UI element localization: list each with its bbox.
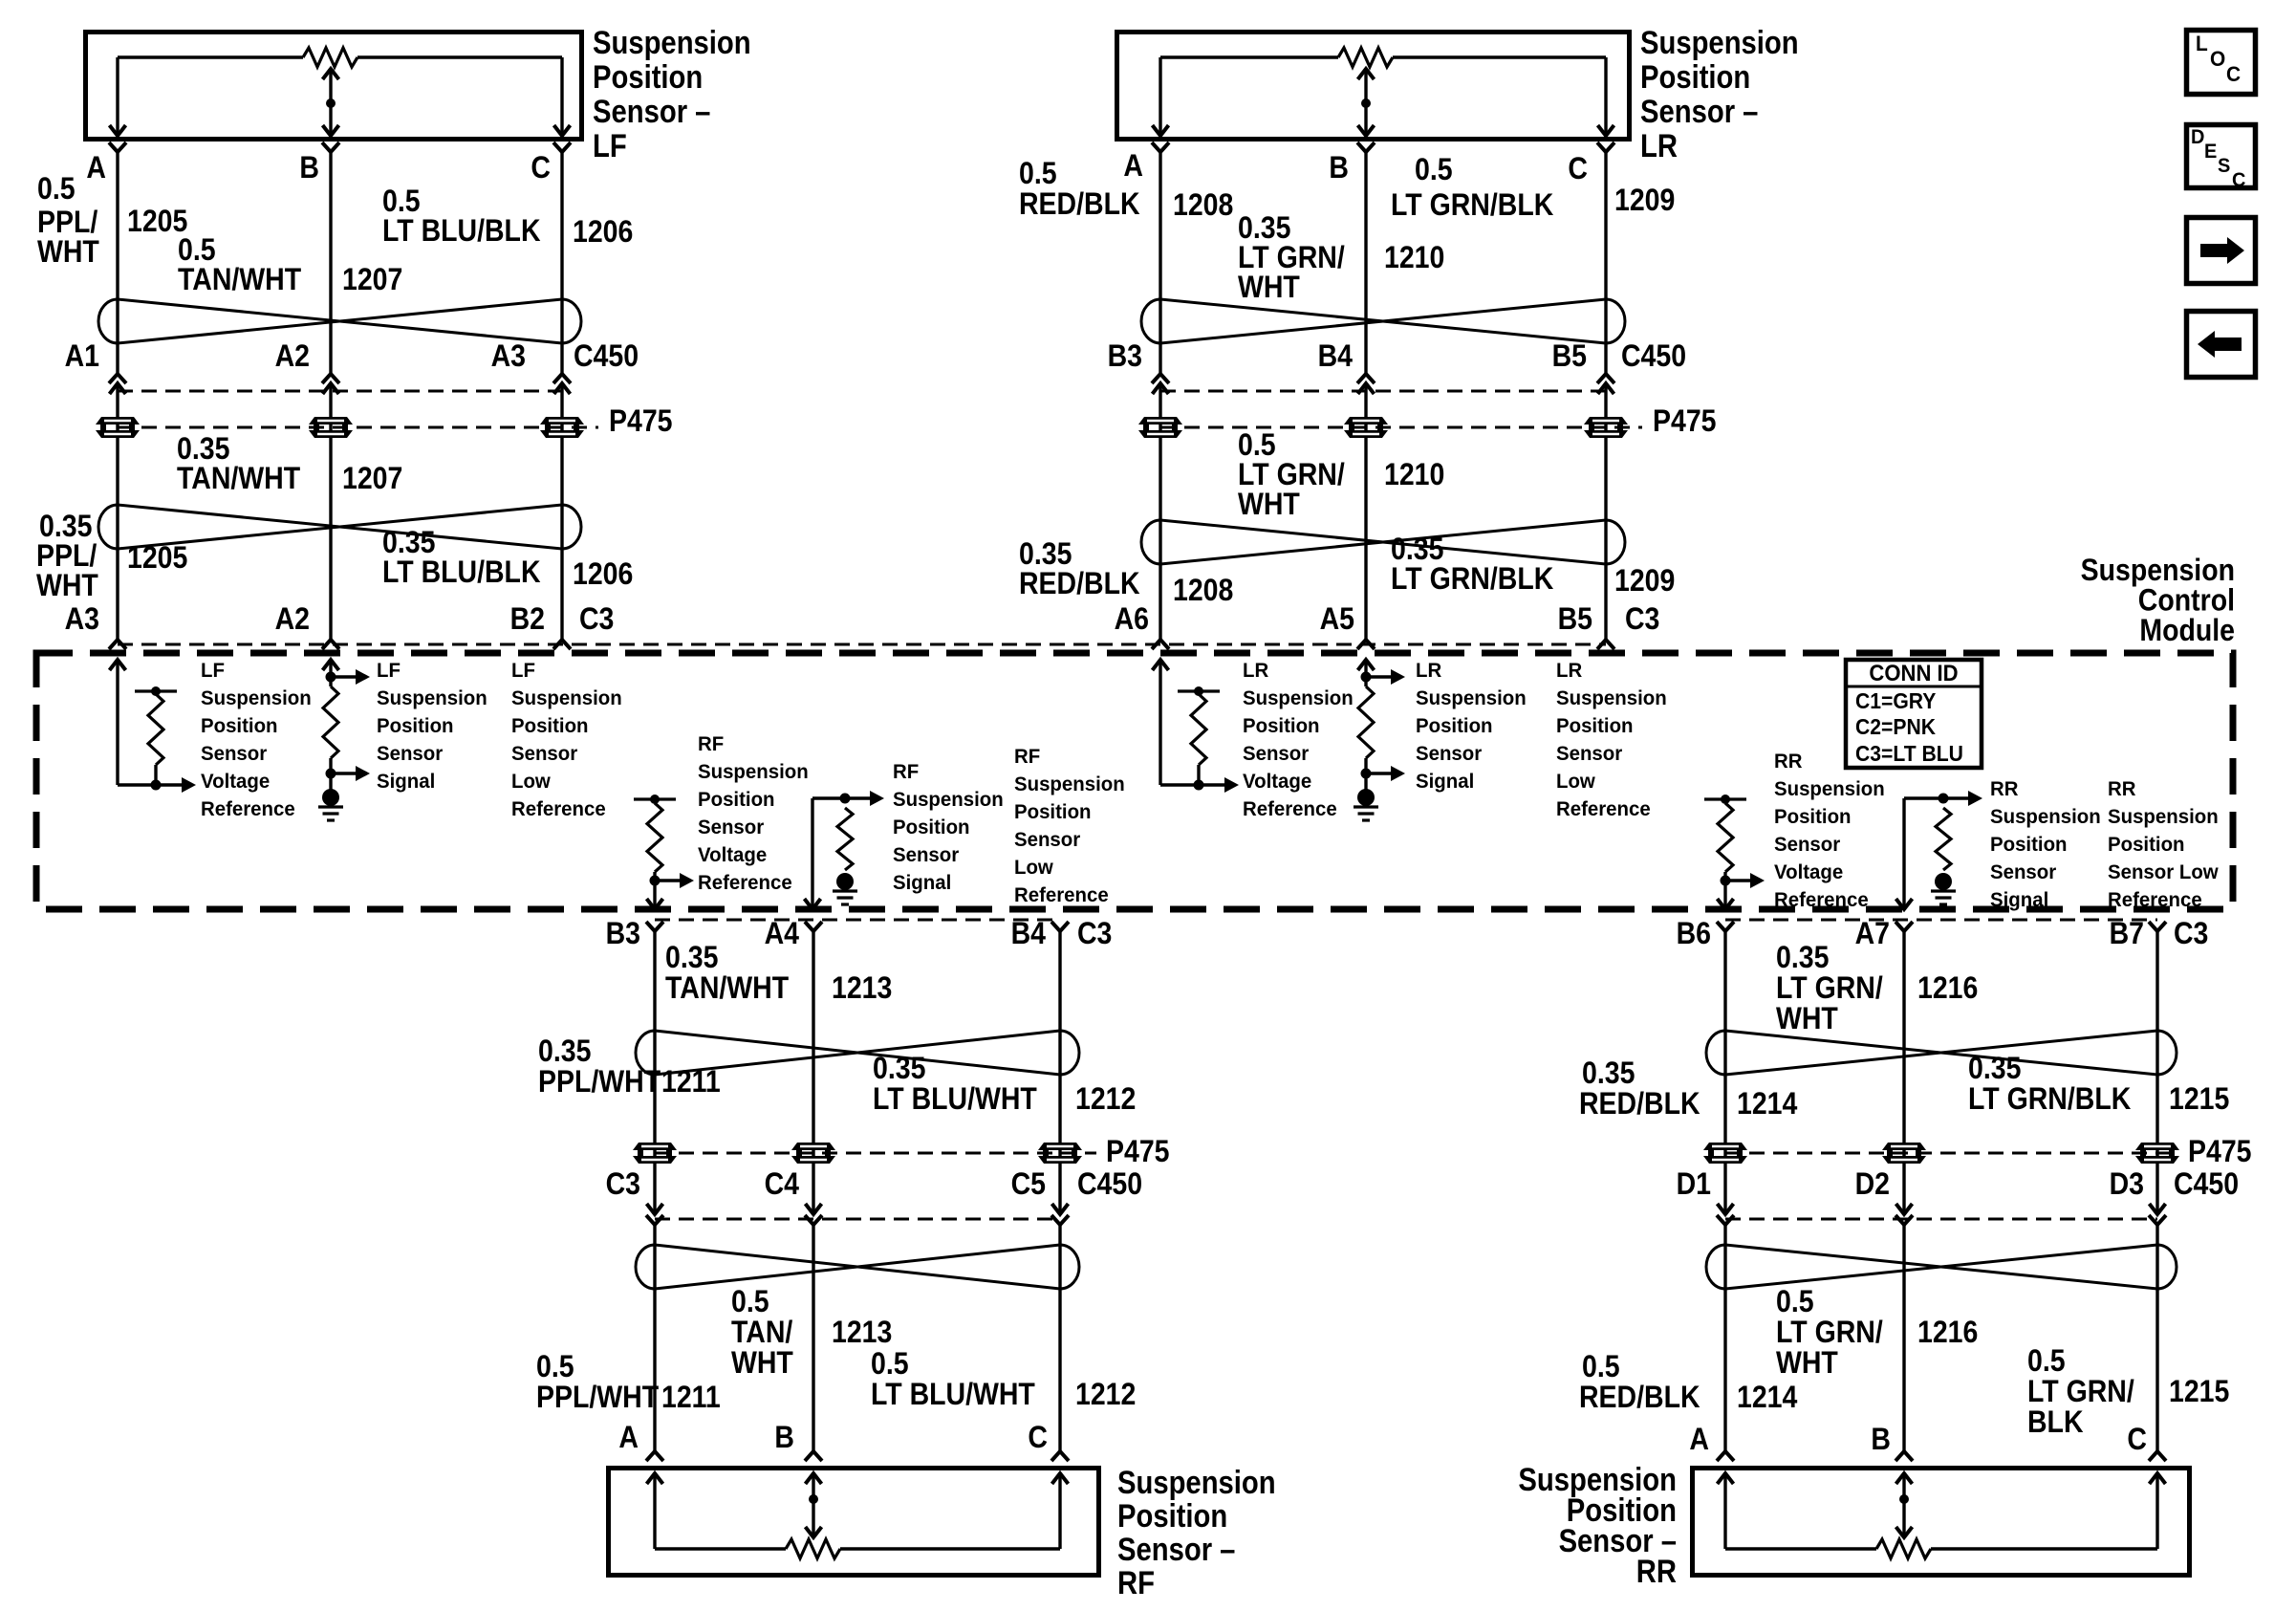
LF wire B (TAN/WHT 1207) module pin arrow — [323, 660, 339, 670]
sensor RF pin A internal lead — [653, 1473, 656, 1549]
sensor LF internal resistor element — [118, 55, 303, 58]
sensor LF pin C internal lead — [560, 57, 563, 136]
LR wire A (RED/BLK 1208) wire sensor to C450 — [1159, 152, 1161, 374]
svg-text:Reference: Reference — [201, 798, 295, 821]
svg-text:WHT: WHT — [1776, 1003, 1838, 1036]
RF wire B (TAN/WHT 1213) wire C450 to sensor — [812, 1225, 814, 1451]
svg-text:Voltage: Voltage — [698, 844, 767, 867]
svg-text:LT GRN/BLK: LT GRN/BLK — [1391, 189, 1553, 223]
svg-text:1212: 1212 — [1075, 1379, 1136, 1412]
LF signal upper tap — [326, 672, 336, 683]
svg-text:Reference: Reference — [698, 872, 792, 895]
svg-text:Position: Position — [1416, 715, 1493, 738]
svg-text:P475: P475 — [1653, 405, 1717, 439]
svg-text:LT BLU/BLK: LT BLU/BLK — [382, 215, 541, 249]
svg-text:1214: 1214 — [1737, 1088, 1797, 1121]
svg-text:LF: LF — [511, 660, 535, 683]
LR wire C (LT GRN/BLK 1209) harness fork below sensor — [1597, 142, 1614, 152]
svg-text:0.35: 0.35 — [538, 1035, 591, 1069]
svg-text:RF: RF — [698, 733, 724, 756]
svg-text:E: E — [2204, 141, 2217, 163]
svg-text:B7: B7 — [2110, 918, 2144, 951]
svg-text:1216: 1216 — [1917, 972, 1978, 1006]
svg-text:BLK: BLK — [2027, 1406, 2084, 1440]
RF wire C (LT BLU/WHT 1212) wire C450 to sensor — [1058, 1225, 1061, 1451]
svg-text:Position: Position — [1640, 58, 1750, 96]
svg-text:TAN/: TAN/ — [731, 1317, 793, 1350]
svg-text:A: A — [1689, 1424, 1709, 1457]
svg-text:C3: C3 — [1077, 918, 1112, 951]
svg-text:P475: P475 — [2188, 1136, 2252, 1169]
svg-text:Position: Position — [1556, 715, 1634, 738]
svg-text:Position: Position — [593, 58, 703, 96]
svg-text:Position: Position — [201, 715, 278, 738]
RR wire C (LT GRN/BLK 1215) connector C450 halves — [2150, 1204, 2166, 1214]
LF voltage reference wire — [116, 660, 119, 785]
LR wire B (LT GRN/WHT 1210) wire C450 to module — [1364, 383, 1367, 640]
svg-text:A1: A1 — [65, 340, 99, 374]
svg-text:Suspension: Suspension — [1774, 778, 1885, 801]
RF wire B (TAN/WHT 1213) grommet P475 — [791, 1143, 835, 1150]
LF wire B (TAN/WHT 1207) grommet P475 — [309, 417, 353, 425]
svg-text:0.35: 0.35 — [1019, 538, 1072, 572]
svg-text:Sensor –: Sensor – — [1640, 93, 1758, 130]
svg-text:0.5: 0.5 — [1776, 1286, 1814, 1319]
RR wire C (LT GRN/BLK 1215) wire C450 to sensor — [2155, 1225, 2158, 1451]
svg-text:Signal: Signal — [377, 771, 435, 794]
svg-text:P475: P475 — [1106, 1136, 1170, 1169]
RR signal tap — [1939, 794, 1949, 804]
svg-text:C450: C450 — [1077, 1168, 1142, 1202]
RR wire B (LT GRN/WHT 1216) grommet P475 — [1882, 1143, 1926, 1150]
LF wire A (PPL/WHT 1205) wire C450 to module — [116, 383, 119, 640]
svg-text:B4: B4 — [1011, 918, 1047, 951]
RF wire C (LT BLU/WHT 1212) fork below module — [1051, 922, 1069, 931]
svg-text:1214: 1214 — [1737, 1382, 1797, 1415]
svg-text:TAN/WHT: TAN/WHT — [178, 264, 302, 297]
svg-text:B: B — [299, 152, 319, 185]
LR wire B (LT GRN/WHT 1210) wire sensor to C450 — [1364, 152, 1367, 374]
svg-text:Position: Position — [893, 816, 970, 839]
LF wire C (LT BLU/BLK 1206) fork at module connector — [553, 640, 571, 649]
svg-text:0.5: 0.5 — [1415, 154, 1453, 187]
svg-text:B3: B3 — [1108, 340, 1142, 374]
svg-text:WHT: WHT — [731, 1347, 793, 1381]
svg-text:C: C — [2232, 169, 2246, 192]
LR wire C (LT GRN/BLK 1209) wire C450 to module — [1604, 383, 1607, 640]
LR wire A (RED/BLK 1208) grommet P475 — [1138, 417, 1182, 425]
svg-text:P475: P475 — [609, 405, 673, 439]
LR signal lower tap — [1361, 769, 1372, 779]
svg-text:A3: A3 — [65, 603, 99, 637]
svg-text:0.35: 0.35 — [177, 433, 229, 467]
svg-text:Position: Position — [1014, 801, 1092, 824]
svg-text:C: C — [2226, 63, 2241, 87]
svg-text:B: B — [774, 1422, 794, 1455]
svg-text:Suspension: Suspension — [2081, 555, 2235, 588]
RF signal exit arrow — [805, 899, 821, 909]
svg-text:LF: LF — [593, 127, 627, 164]
CONN ID table — [1846, 660, 1982, 768]
twisted pair RR lower — [1706, 1245, 1725, 1289]
svg-text:Suspension: Suspension — [2108, 806, 2219, 829]
RR voltage reference exit arrow — [1718, 899, 1734, 909]
LF wire C (LT BLU/BLK 1206) connector C450 halves — [553, 374, 571, 383]
svg-text:LT GRN/BLK: LT GRN/BLK — [1968, 1083, 2131, 1117]
svg-text:Position: Position — [1243, 715, 1320, 738]
svg-text:C3: C3 — [579, 603, 614, 637]
svg-text:Control: Control — [2138, 584, 2235, 618]
sensor LF pin A internal lead — [116, 57, 119, 136]
RR voltage reference resistor — [1704, 797, 1746, 800]
svg-text:C1=GRY: C1=GRY — [1855, 688, 1937, 713]
sensor LR pin C internal lead — [1604, 57, 1607, 136]
svg-text:0.5: 0.5 — [731, 1286, 769, 1319]
RR wire B (LT GRN/WHT 1216) wire C450 to sensor — [1902, 1225, 1905, 1451]
svg-text:1213: 1213 — [832, 972, 892, 1006]
suspension position sensor LR box — [1117, 33, 1630, 140]
RF signal resistor — [837, 808, 853, 870]
LR wire B (LT GRN/WHT 1210) connector C450 halves — [1357, 374, 1375, 383]
svg-text:Position: Position — [511, 715, 589, 738]
svg-text:Voltage: Voltage — [201, 771, 270, 794]
RF wire C (LT BLU/WHT 1212) fork above sensor — [1051, 1451, 1069, 1461]
svg-text:Suspension: Suspension — [1117, 1464, 1276, 1501]
sensor RR pin C internal lead — [2155, 1473, 2158, 1549]
svg-text:WHT: WHT — [1776, 1347, 1838, 1381]
RR wire B (LT GRN/WHT 1216) fork below module — [1895, 922, 1913, 931]
icon box forward arrow — [2187, 218, 2256, 284]
svg-text:C5: C5 — [1011, 1168, 1046, 1202]
suspension position sensor LF box — [86, 33, 582, 140]
svg-text:Sensor: Sensor — [1774, 834, 1840, 857]
svg-text:Suspension: Suspension — [1556, 687, 1667, 710]
svg-text:1206: 1206 — [573, 216, 633, 250]
svg-text:PPL/: PPL/ — [36, 540, 97, 574]
svg-text:A5: A5 — [1320, 603, 1354, 637]
svg-text:Suspension: Suspension — [1990, 806, 2101, 829]
svg-text:B: B — [1329, 152, 1349, 185]
svg-text:Position: Position — [1117, 1497, 1227, 1535]
RF wire A (PPL/WHT 1211) fork above sensor — [646, 1451, 663, 1461]
LR wire C (LT GRN/BLK 1209) fork at module connector — [1597, 640, 1614, 649]
svg-text:1215: 1215 — [2169, 1083, 2229, 1117]
svg-text:D3: D3 — [2110, 1168, 2144, 1202]
svg-text:1208: 1208 — [1173, 575, 1233, 608]
svg-text:0.35: 0.35 — [1391, 533, 1443, 567]
svg-text:Sensor: Sensor — [893, 844, 959, 867]
svg-text:Sensor: Sensor — [377, 743, 443, 766]
svg-text:A3: A3 — [491, 340, 526, 374]
svg-text:RR: RR — [1774, 751, 1802, 773]
LR wire B (LT GRN/WHT 1210) module pin arrow — [1358, 660, 1375, 670]
LR voltage reference wire — [1159, 660, 1161, 785]
LR wire B (LT GRN/WHT 1210) harness fork below sensor — [1357, 142, 1375, 152]
svg-text:A7: A7 — [1855, 918, 1890, 951]
svg-text:C4: C4 — [765, 1168, 800, 1202]
svg-text:0.35: 0.35 — [873, 1053, 925, 1086]
svg-text:C: C — [2127, 1424, 2147, 1457]
svg-text:Sensor: Sensor — [1243, 743, 1309, 766]
LF wire C (LT BLU/BLK 1206) harness fork below sensor — [553, 142, 571, 152]
LF voltage reference arrow — [182, 777, 196, 793]
RR wire C (LT GRN/BLK 1215) wire module to P475 — [2155, 931, 2158, 1214]
svg-text:RF: RF — [1117, 1564, 1155, 1601]
svg-text:Reference: Reference — [1774, 889, 1869, 912]
svg-text:A6: A6 — [1115, 603, 1149, 637]
sensor RF internal resistor element — [655, 1547, 786, 1550]
svg-text:Suspension: Suspension — [698, 761, 809, 784]
twisted pair LR upper — [1141, 299, 1160, 343]
twisted pair LF lower — [98, 505, 118, 549]
svg-text:Signal: Signal — [893, 872, 951, 895]
LF signal resistor — [323, 686, 338, 758]
RR signal exit arrow — [1896, 899, 1913, 909]
RR wire C (LT GRN/BLK 1215) fork below module — [2149, 922, 2166, 931]
sensor RR internal resistor element — [1725, 1547, 1876, 1550]
icon box back arrow — [2187, 312, 2256, 378]
LR wire C (LT GRN/BLK 1209) wire sensor to C450 — [1604, 152, 1607, 374]
LF wire A (PPL/WHT 1205) harness fork below sensor — [109, 142, 126, 152]
RF wire C (LT BLU/WHT 1212) wire module to P475 — [1058, 931, 1061, 1214]
LF wire C (LT BLU/BLK 1206) grommet P475 — [540, 417, 584, 425]
twisted pair LF upper — [98, 299, 118, 343]
svg-text:Voltage: Voltage — [1243, 771, 1311, 794]
svg-text:RF: RF — [893, 761, 919, 784]
grommet line P475 top LR — [1160, 426, 1642, 429]
LR signal upper tap — [1361, 672, 1372, 683]
svg-text:1211: 1211 — [661, 1382, 721, 1415]
svg-text:1209: 1209 — [1614, 185, 1675, 218]
RF wire A (PPL/WHT 1211) connector C450 halves — [647, 1204, 663, 1214]
svg-text:L: L — [2196, 33, 2208, 56]
RF wire B (TAN/WHT 1213) fork below module — [805, 922, 822, 931]
svg-text:A2: A2 — [275, 603, 310, 637]
svg-text:Voltage: Voltage — [1774, 861, 1843, 884]
svg-text:Reference: Reference — [1014, 884, 1109, 907]
sensor LR wiper — [1358, 69, 1375, 79]
svg-text:0.5: 0.5 — [1582, 1351, 1620, 1384]
svg-text:LT GRN/: LT GRN/ — [2027, 1376, 2134, 1409]
RR signal ground — [1935, 873, 1952, 890]
svg-text:A: A — [1123, 150, 1143, 184]
grommet line P475 bottom RF — [655, 1152, 1096, 1155]
LR wire C (LT GRN/BLK 1209) connector C450 halves — [1597, 374, 1614, 383]
svg-text:LT GRN/: LT GRN/ — [1776, 972, 1883, 1006]
svg-text:LF: LF — [201, 660, 225, 683]
svg-text:1207: 1207 — [342, 264, 402, 297]
RF wire C (LT BLU/WHT 1212) grommet P475 — [1038, 1143, 1082, 1150]
RF wire A (PPL/WHT 1211) wire C450 to sensor — [653, 1225, 656, 1451]
LR voltage reference resistor — [1178, 689, 1220, 692]
svg-text:CONN ID: CONN ID — [1869, 660, 1958, 686]
svg-text:1212: 1212 — [1075, 1083, 1136, 1117]
connector line C450 top LR — [1160, 390, 1606, 393]
twisted pair RF upper — [636, 1031, 655, 1075]
svg-text:Sensor: Sensor — [1556, 743, 1622, 766]
svg-text:Position: Position — [1990, 834, 2068, 857]
RR wire C (LT GRN/BLK 1215) fork above sensor — [2149, 1451, 2166, 1461]
svg-text:Signal: Signal — [1416, 771, 1474, 794]
svg-text:WHT: WHT — [36, 570, 98, 603]
svg-text:1210: 1210 — [1384, 459, 1444, 492]
svg-text:C450: C450 — [574, 340, 639, 374]
RF wire A (PPL/WHT 1211) wire module to P475 — [653, 931, 656, 1214]
sensor LF wiper — [323, 69, 339, 79]
svg-text:Reference: Reference — [1243, 798, 1337, 821]
svg-text:Suspension: Suspension — [201, 687, 312, 710]
svg-text:B2: B2 — [510, 603, 545, 637]
svg-text:C3: C3 — [1625, 603, 1659, 637]
LF wire A (PPL/WHT 1205) grommet P475 — [96, 417, 140, 425]
svg-text:LT BLU/WHT: LT BLU/WHT — [873, 1083, 1037, 1117]
LF voltage reference resistor — [135, 689, 177, 692]
svg-text:A: A — [618, 1422, 639, 1455]
sensor RR pin A internal lead — [1723, 1473, 1726, 1549]
svg-text:RR: RR — [1636, 1553, 1677, 1590]
RR wire A (RED/BLK 1214) wire module to P475 — [1723, 931, 1726, 1214]
svg-text:0.35: 0.35 — [665, 942, 718, 975]
LF signal ground — [322, 789, 339, 806]
svg-text:1206: 1206 — [573, 558, 633, 592]
svg-text:Low: Low — [511, 771, 551, 794]
svg-text:1207: 1207 — [342, 463, 402, 496]
svg-text:LT GRN/BLK: LT GRN/BLK — [1391, 563, 1553, 597]
RF signal tap — [840, 794, 851, 804]
svg-text:1209: 1209 — [1614, 565, 1675, 599]
svg-text:Reference: Reference — [2108, 889, 2202, 912]
svg-text:0.5: 0.5 — [536, 1351, 574, 1384]
svg-text:0.5: 0.5 — [37, 173, 76, 207]
svg-text:LR: LR — [1556, 660, 1582, 683]
svg-text:0.35: 0.35 — [1776, 942, 1829, 975]
svg-text:RR: RR — [1990, 778, 2018, 801]
svg-text:C2=PNK: C2=PNK — [1855, 714, 1936, 739]
connector line C450 bottom RF — [655, 1218, 1060, 1221]
svg-text:Signal: Signal — [1990, 889, 2048, 912]
svg-text:0.5: 0.5 — [2027, 1345, 2066, 1379]
RF voltage reference tap — [650, 876, 661, 886]
svg-text:0.35: 0.35 — [382, 527, 435, 560]
LR wire C (LT GRN/BLK 1209) grommet P475 — [1584, 417, 1628, 425]
svg-text:LT GRN/: LT GRN/ — [1238, 242, 1345, 275]
svg-text:0.5: 0.5 — [871, 1348, 909, 1382]
svg-text:PPL/WHT: PPL/WHT — [538, 1066, 661, 1099]
svg-text:B5: B5 — [1558, 603, 1592, 637]
RR voltage reference tap — [1721, 876, 1731, 886]
connector line C450 bottom RR — [1725, 1218, 2157, 1221]
svg-text:1208: 1208 — [1173, 189, 1233, 223]
svg-text:Position: Position — [1774, 806, 1852, 829]
svg-text:LT GRN/: LT GRN/ — [1238, 459, 1345, 492]
svg-text:C450: C450 — [1621, 340, 1686, 374]
RF wire B (TAN/WHT 1213) wire module to P475 — [812, 931, 814, 1214]
LR wire B (LT GRN/WHT 1210) grommet P475 — [1344, 417, 1388, 425]
svg-text:LF: LF — [377, 660, 401, 683]
LF wire B (TAN/WHT 1207) harness fork below sensor — [322, 142, 339, 152]
sensor RF pin C internal lead — [1058, 1473, 1061, 1549]
LF wire B (TAN/WHT 1207) fork at module connector — [322, 640, 339, 649]
svg-text:Reference: Reference — [1556, 798, 1651, 821]
RR wire A (RED/BLK 1214) fork below module — [1717, 922, 1734, 931]
grommet line P475 bottom RR — [1725, 1152, 2178, 1155]
LF signal wire — [329, 660, 332, 686]
LF wire A (PPL/WHT 1205) connector C450 halves — [109, 374, 126, 383]
svg-text:RED/BLK: RED/BLK — [1579, 1382, 1700, 1415]
svg-text:Sensor: Sensor — [201, 743, 267, 766]
svg-text:A2: A2 — [275, 340, 310, 374]
module connector line C1-C3 top — [118, 643, 1606, 646]
RR signal resistor — [1936, 808, 1951, 870]
svg-text:B5: B5 — [1552, 340, 1587, 374]
LR wire A (RED/BLK 1208) module pin arrow — [1153, 660, 1169, 670]
suspension position sensor RF box — [609, 1469, 1099, 1576]
svg-text:B3: B3 — [606, 918, 640, 951]
LF wire B (TAN/WHT 1207) wire sensor to C450 — [329, 152, 332, 374]
svg-text:Suspension: Suspension — [511, 687, 622, 710]
svg-text:Sensor –: Sensor – — [593, 93, 710, 130]
LF wire A (PPL/WHT 1205) fork at module connector — [109, 640, 126, 649]
svg-text:C3: C3 — [606, 1168, 640, 1202]
RF voltage reference exit arrow — [647, 899, 663, 909]
LR wire A (RED/BLK 1208) wire C450 to module — [1159, 383, 1161, 640]
svg-text:1210: 1210 — [1384, 242, 1444, 275]
svg-text:Sensor: Sensor — [1416, 743, 1482, 766]
svg-text:Suspension: Suspension — [1243, 687, 1354, 710]
svg-text:Position: Position — [698, 789, 775, 812]
LR signal ground — [1357, 789, 1375, 806]
RR signal wire — [1902, 798, 1905, 909]
LR voltage reference arrow — [1224, 777, 1239, 793]
LR wire A (RED/BLK 1208) fork at module connector — [1152, 640, 1169, 649]
svg-text:LR: LR — [1416, 660, 1441, 683]
suspension position sensor RR box — [1693, 1469, 2190, 1576]
RF wire B (TAN/WHT 1213) fork above sensor — [805, 1451, 822, 1461]
svg-text:TAN/WHT: TAN/WHT — [665, 972, 790, 1006]
svg-text:1216: 1216 — [1917, 1317, 1978, 1350]
svg-text:0.35: 0.35 — [39, 511, 92, 544]
svg-text:B: B — [1871, 1424, 1891, 1457]
connector line C450 top LF — [118, 390, 562, 393]
LR wire A (RED/BLK 1208) harness fork below sensor — [1152, 142, 1169, 152]
svg-text:1211: 1211 — [661, 1066, 721, 1099]
sensor LR internal resistor element — [1160, 55, 1338, 58]
svg-text:Suspension: Suspension — [1416, 687, 1527, 710]
svg-text:RF: RF — [1014, 746, 1040, 769]
svg-text:S: S — [2218, 155, 2230, 178]
svg-text:A: A — [86, 152, 106, 185]
svg-text:C: C — [531, 152, 551, 185]
RR wire A (RED/BLK 1214) wire C450 to sensor — [1723, 1225, 1726, 1451]
svg-text:Suspension: Suspension — [1640, 24, 1799, 61]
svg-text:B4: B4 — [1318, 340, 1354, 374]
svg-text:Reference: Reference — [511, 798, 606, 821]
svg-text:A4: A4 — [765, 918, 800, 951]
LR signal resistor — [1358, 686, 1374, 758]
svg-text:Sensor: Sensor — [698, 816, 764, 839]
module connector line C3 bottom RF — [655, 919, 1060, 922]
svg-text:PPL/: PPL/ — [37, 207, 98, 240]
RR wire A (RED/BLK 1214) fork above sensor — [1717, 1451, 1734, 1461]
svg-text:1215: 1215 — [2169, 1376, 2229, 1409]
svg-text:D2: D2 — [1855, 1168, 1890, 1202]
svg-text:Sensor: Sensor — [511, 743, 577, 766]
svg-text:Sensor –: Sensor – — [1117, 1531, 1235, 1568]
svg-text:WHT: WHT — [37, 236, 99, 270]
svg-text:0.5: 0.5 — [382, 185, 421, 219]
LF wire A (PPL/WHT 1205) wire sensor to C450 — [116, 152, 119, 374]
svg-text:C: C — [1568, 153, 1588, 186]
